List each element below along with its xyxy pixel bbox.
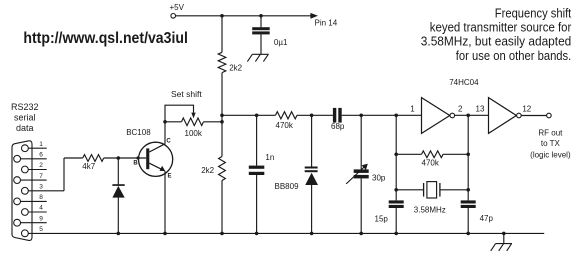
resistor 4k7 bbox=[83, 155, 104, 162]
svg-text:6: 6 bbox=[39, 152, 43, 159]
svg-text:2: 2 bbox=[39, 162, 43, 169]
svg-text:RF out: RF out bbox=[538, 128, 563, 137]
junction 30p bbox=[359, 114, 363, 118]
terminal +5V bbox=[171, 14, 176, 19]
connector pin 8 bbox=[14, 198, 21, 205]
varactor diode BB809 bbox=[311, 115, 313, 166]
svg-text:470k: 470k bbox=[276, 121, 294, 130]
svg-text:RS232: RS232 bbox=[11, 102, 39, 112]
variable capacitor 30p bbox=[360, 115, 362, 169]
junction bus x=468.2 bbox=[466, 232, 470, 236]
junction 15p/crystal bbox=[394, 114, 398, 118]
junction node A bbox=[220, 114, 224, 118]
wire 4k7 to base bbox=[104, 157, 146, 159]
junction bus x=361.2 bbox=[359, 232, 363, 236]
svg-text:3.58MHz, but easily adapted: 3.58MHz, but easily adapted bbox=[421, 35, 572, 49]
junction 15p/470k fb bbox=[394, 153, 398, 157]
svg-text:15p: 15p bbox=[375, 215, 389, 224]
junction BB809 bbox=[310, 114, 314, 118]
svg-text:68p: 68p bbox=[331, 122, 345, 131]
svg-text:serial: serial bbox=[14, 112, 36, 122]
junction 47p/crystal bbox=[466, 188, 470, 192]
junction diode/4k7 bbox=[117, 156, 121, 160]
capacitor 47p bbox=[467, 115, 469, 200]
resistor 2k2 (lower, to ground) bbox=[221, 122, 223, 157]
svg-text:8: 8 bbox=[39, 194, 43, 201]
connector pin 9 bbox=[14, 219, 21, 226]
svg-text:2: 2 bbox=[458, 104, 463, 113]
wire 2k2 to node A bbox=[221, 73, 223, 122]
svg-text:data: data bbox=[16, 123, 34, 133]
svg-text:13: 13 bbox=[476, 104, 485, 113]
svg-text:B: B bbox=[133, 161, 138, 167]
ground (earth) under 0u1 bbox=[252, 53, 268, 55]
svg-text:3.58MHz: 3.58MHz bbox=[414, 205, 446, 214]
junction bus x=503.8 bbox=[502, 232, 506, 236]
inverter U1b bbox=[489, 98, 517, 134]
svg-text:5: 5 bbox=[39, 226, 43, 233]
svg-text:4k7: 4k7 bbox=[82, 162, 95, 171]
junction bus x=256.6 bbox=[255, 232, 259, 236]
svg-text:1: 1 bbox=[410, 104, 415, 113]
connector pin 3 bbox=[22, 187, 29, 194]
svg-text:1: 1 bbox=[39, 141, 43, 148]
svg-text:(logic level): (logic level) bbox=[530, 150, 571, 159]
connector pin 4 bbox=[22, 209, 29, 216]
svg-text:2k2: 2k2 bbox=[229, 63, 242, 72]
svg-text:1n: 1n bbox=[265, 153, 274, 162]
connector pin 1 bbox=[22, 145, 29, 152]
crystal X1 3.58MHz bbox=[396, 189, 423, 191]
connector pin 5 bbox=[22, 230, 29, 237]
svg-text:Frequency shift: Frequency shift bbox=[495, 7, 572, 21]
wire +5V rail to Pin 14 bbox=[176, 15, 311, 17]
ground (earth) bottom right bbox=[503, 233, 505, 243]
svg-text:BC108: BC108 bbox=[126, 128, 151, 137]
junction 47p/470k fb bbox=[466, 153, 470, 157]
svg-text:Set shift: Set shift bbox=[171, 89, 202, 99]
junction bus x=311.6 bbox=[310, 232, 314, 236]
svg-text:C: C bbox=[166, 139, 171, 145]
svg-text:470k: 470k bbox=[422, 159, 440, 168]
junction bus x=222 bbox=[220, 232, 224, 236]
wire emitter down bbox=[164, 171, 166, 233]
svg-text:7: 7 bbox=[39, 173, 43, 180]
junction top rail / 0u1 bbox=[259, 14, 263, 18]
arrow to Pin 14 bbox=[310, 13, 318, 19]
wire 68p to inverter input bbox=[342, 114, 422, 116]
svg-text:http://www.qsl.net/va3iul: http://www.qsl.net/va3iul bbox=[23, 30, 188, 47]
svg-text:2k2: 2k2 bbox=[201, 166, 214, 175]
wire to RF out terminal bbox=[521, 115, 546, 117]
wire collector to pot bbox=[165, 121, 182, 123]
wire U1a out to U1b in bbox=[455, 114, 489, 116]
capacitor 15p bbox=[395, 115, 397, 200]
capacitor 68p bbox=[333, 108, 336, 123]
svg-text:for use on other bands.: for use on other bands. bbox=[456, 49, 572, 63]
svg-text:4: 4 bbox=[39, 205, 43, 212]
potentiometer 100k Set shift bbox=[182, 118, 204, 126]
junction 1n bbox=[255, 114, 259, 118]
junction bus x=118.3 bbox=[117, 232, 121, 236]
wire node A row bbox=[222, 114, 276, 116]
diode D1 (clamp) bbox=[117, 158, 119, 185]
junction inverter output bbox=[466, 114, 470, 118]
wire collector up bbox=[164, 122, 166, 144]
svg-text:74HC04: 74HC04 bbox=[449, 78, 479, 87]
svg-text:30p: 30p bbox=[372, 173, 386, 182]
capacitor 1n bbox=[256, 115, 258, 165]
svg-text:BB809: BB809 bbox=[275, 182, 300, 191]
svg-text:47p: 47p bbox=[480, 214, 494, 223]
connector pin 6 bbox=[14, 155, 21, 162]
resistor 470k (feedback) bbox=[396, 153, 421, 155]
svg-text:3: 3 bbox=[39, 184, 43, 191]
junction bus x=165 bbox=[163, 232, 167, 236]
wire pin3 to 4k7 bbox=[63, 158, 65, 191]
svg-text:12: 12 bbox=[522, 104, 531, 113]
resistor 2k2 (upper, from +5V) bbox=[221, 16, 223, 53]
junction bus x=396.2 bbox=[394, 232, 398, 236]
junction base bbox=[136, 156, 139, 159]
junction top rail / 2k2 bbox=[220, 14, 224, 18]
svg-text:+5V: +5V bbox=[170, 3, 185, 12]
connector pin 2 bbox=[22, 166, 29, 173]
wire 470k to 68p bbox=[297, 114, 333, 116]
svg-text:Pin 14: Pin 14 bbox=[315, 18, 338, 27]
svg-text:0µ1: 0µ1 bbox=[274, 38, 288, 47]
wire ground bus bbox=[28, 232, 544, 234]
terminal RF out bbox=[547, 113, 552, 118]
junction 15p/crystal bbox=[394, 188, 398, 192]
svg-text:9: 9 bbox=[39, 215, 43, 222]
svg-text:keyed transmitter source for: keyed transmitter source for bbox=[430, 21, 572, 35]
connector pin 7 bbox=[14, 177, 21, 184]
capacitor C 0u1 bbox=[260, 16, 262, 27]
junction collector/pot bbox=[163, 120, 167, 124]
svg-text:100k: 100k bbox=[185, 129, 203, 138]
svg-text:E: E bbox=[167, 173, 171, 179]
resistor 470k (varicap feed) bbox=[276, 112, 298, 119]
junction pot/node A bbox=[220, 120, 224, 124]
svg-text:to TX: to TX bbox=[541, 139, 561, 148]
